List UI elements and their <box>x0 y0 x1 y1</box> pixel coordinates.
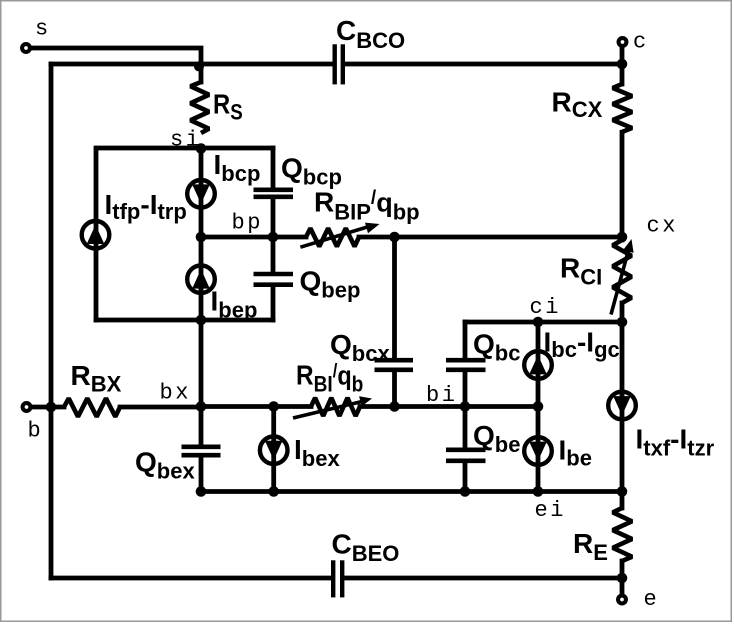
wire c terminal drop <box>620 47 625 84</box>
resistor RBIP variable <box>306 228 359 246</box>
node bp dot <box>196 232 207 243</box>
wire re to bottom rail and e <box>620 561 625 595</box>
svg-text:bp: bp <box>232 211 264 236</box>
node ci rail dot <box>617 317 628 328</box>
resistor RBI variable <box>311 398 360 416</box>
node cx dot <box>617 232 628 243</box>
current source Itxf-Itzr <box>608 392 636 420</box>
wire qbcx drop <box>392 237 397 358</box>
junction qbe bottom <box>460 486 471 497</box>
resistor RS <box>191 82 210 133</box>
arrow of RBIP <box>300 223 379 248</box>
parasitic box left and top <box>96 148 273 320</box>
current source Ibc-Igc <box>524 351 552 379</box>
current source Ibep <box>187 265 215 293</box>
junction e bottom <box>617 573 628 584</box>
wire top b rail left segment <box>51 62 333 67</box>
capacitor CBCO <box>335 44 343 84</box>
svg-text:ci: ci <box>530 295 562 320</box>
wire ibc ibe branch <box>536 322 541 492</box>
node si dot <box>196 143 207 154</box>
wire rci to ci row <box>620 303 625 322</box>
svg-text:ei: ei <box>535 498 567 523</box>
node bx dot <box>196 401 207 412</box>
terminal c <box>619 38 627 46</box>
svg-text:e: e <box>644 587 660 612</box>
wire rbx to bx <box>120 405 202 410</box>
wire box bottom to bx <box>199 320 204 407</box>
svg-text:cx: cx <box>647 214 679 239</box>
box right edge segments with qbcp qbep gaps <box>271 148 276 188</box>
wire bx to qbex <box>199 407 204 445</box>
junction c top <box>617 59 628 70</box>
junction ibex top <box>268 401 279 412</box>
junction qbcx top <box>389 232 400 243</box>
junction box right bp <box>268 232 279 243</box>
svg-text:c: c <box>633 30 649 55</box>
wire ci row <box>465 320 622 325</box>
wire c rail ci to ei row <box>620 322 625 492</box>
node bi right dot <box>533 401 544 412</box>
svg-text:si: si <box>170 128 202 153</box>
svg-text:bx: bx <box>160 381 192 406</box>
capacitor Qbex <box>182 447 221 455</box>
wire ibex branch <box>271 407 276 492</box>
arrow of RBI <box>293 396 372 418</box>
current source Ibe <box>524 437 552 465</box>
parasitic box bottom <box>96 318 273 323</box>
current source Ibcp <box>187 180 215 208</box>
terminal e <box>618 596 626 604</box>
junction ibex bottom <box>268 486 279 497</box>
junction blob at s crossing <box>194 62 204 72</box>
wire ei bottom row <box>201 489 622 494</box>
capacitor Qbcp <box>254 190 294 197</box>
wire intrinsic left branch qbc <box>463 322 468 358</box>
terminal s <box>22 44 30 52</box>
wire intrinsic left branch qbe <box>463 407 468 448</box>
resistor RCX <box>613 84 632 132</box>
wire bp row bp to rbip <box>201 235 306 240</box>
wire b terminal to rbx <box>27 405 64 410</box>
arrow of RCI <box>611 239 634 315</box>
wire qbcx to bi row <box>392 372 397 406</box>
capacitor Qbep <box>254 274 294 285</box>
wire qbex to bottom row <box>199 457 204 491</box>
resistor RCI variable <box>613 240 632 303</box>
wire bottom rail right segment <box>345 576 623 581</box>
wire s terminal to corner <box>27 48 201 82</box>
node bi left dot <box>460 401 471 412</box>
wire rbi to bi <box>360 404 538 409</box>
svg-text:b: b <box>28 419 44 444</box>
junction ibe bottom <box>533 486 544 497</box>
junction ei row left <box>196 486 207 497</box>
wire si vertical down through box <box>199 148 204 320</box>
svg-text:bi: bi <box>426 383 458 408</box>
junction qbcx bottom <box>389 401 400 412</box>
junction left rail b <box>46 402 57 413</box>
wire rcx to cx <box>620 132 625 240</box>
wire bx to rbi <box>202 404 311 409</box>
resistor RBX <box>64 398 120 416</box>
capacitor Qbe <box>446 450 486 461</box>
capacitor CBEO <box>333 560 342 597</box>
node ei rail dot <box>617 486 628 497</box>
junction box bottom <box>196 315 207 326</box>
svg-text:s: s <box>35 17 51 42</box>
node ci left dot <box>533 317 544 328</box>
wire left rail <box>49 64 54 578</box>
resistor RE <box>613 508 632 561</box>
wire top b rail right segment <box>345 62 622 67</box>
capacitor Qbc <box>446 360 486 370</box>
current source Ibex <box>260 436 288 464</box>
capacitor Qbcx <box>375 360 414 370</box>
current source Itfp-Itrp <box>82 221 110 249</box>
wire ei row to re <box>620 492 625 509</box>
wire bottom rail left segment <box>51 576 331 581</box>
wire rbip to cx <box>359 235 622 240</box>
terminal b <box>23 403 31 411</box>
